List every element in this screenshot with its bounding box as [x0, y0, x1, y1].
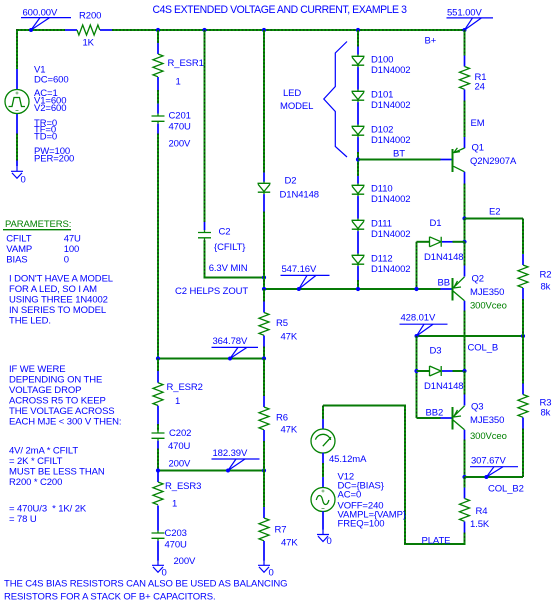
svg-text:CFILT: CFILT	[6, 234, 31, 245]
wire D112 to BB row	[357, 280, 359, 289]
svg-text:R200 * C200: R200 * C200	[9, 477, 62, 488]
wire D3 left vertical	[416, 336, 418, 418]
current probe 45.12mA	[311, 429, 367, 465]
wire LED chain top	[357, 30, 359, 47]
diode D110	[352, 183, 411, 205]
voltage source V12	[311, 488, 335, 512]
pin D110-D111	[357, 196, 359, 218]
node dot BB left	[262, 287, 266, 291]
pin R4 bottom	[464, 522, 466, 533]
wire R7 top	[263, 471, 265, 508]
wire R1 top	[464, 30, 466, 56]
svg-text:C201: C201	[169, 111, 191, 122]
svg-text:THE VOLTAGE ACROSS: THE VOLTAGE ACROSS	[9, 406, 115, 417]
svg-text:COL_B2: COL_B2	[488, 484, 524, 495]
svg-text:0: 0	[21, 175, 26, 186]
wire COL_B row	[417, 335, 524, 337]
svg-text:IF WE WERE: IF WE WERE	[9, 364, 66, 375]
diode D1	[424, 218, 463, 263]
pin C203 to ground	[157, 541, 159, 561]
wire R4 to PLATE	[464, 533, 466, 545]
wire E2 row	[465, 218, 524, 220]
node dot 182 right	[262, 468, 266, 472]
wire Q3 collector down	[464, 440, 466, 478]
svg-text:47K: 47K	[281, 538, 298, 549]
node dot BT	[356, 157, 360, 161]
svg-text:R4: R4	[476, 506, 488, 517]
pin V1 gnd stub	[16, 161, 18, 167]
pin Q2 emitter	[464, 266, 466, 277]
pin V1 bottom	[16, 113, 18, 133]
svg-text:BIAS: BIAS	[6, 255, 27, 266]
voltage viewpoint 600.00V	[21, 8, 71, 33]
svg-text:300Vceo: 300Vceo	[470, 301, 507, 312]
pin R_ESR2 bottom	[157, 406, 159, 424]
svg-text:307.67V: 307.67V	[471, 456, 506, 467]
svg-text:MJE350: MJE350	[470, 287, 504, 298]
resistor R_ESR3	[153, 481, 201, 510]
svg-text:D1N4148: D1N4148	[424, 381, 463, 392]
svg-text:EACH MJE < 300 V THEN:: EACH MJE < 300 V THEN:	[9, 417, 121, 428]
voltage viewpoint 182.39V	[212, 448, 260, 473]
svg-text:THE LED.: THE LED.	[9, 316, 51, 327]
svg-text:D1N4002: D1N4002	[371, 264, 410, 275]
svg-text:47U: 47U	[64, 234, 81, 245]
pin R6 bottom	[263, 430, 265, 441]
wire R5 to 364 row	[263, 347, 265, 359]
svg-text:100: 100	[64, 244, 80, 255]
svg-text:Q2: Q2	[472, 274, 484, 285]
svg-text:D3: D3	[430, 346, 442, 357]
voltage source V1	[5, 90, 29, 114]
pin D2 bottom	[263, 194, 265, 211]
svg-text:D1: D1	[430, 218, 442, 229]
svg-text:R2: R2	[540, 270, 552, 281]
resistor R1	[460, 67, 487, 93]
svg-text:THE C4S BIAS RESISTORS CAN ALS: THE C4S BIAS RESISTORS CAN ALSO BE USED …	[4, 579, 287, 590]
ground 0 (chain A)	[152, 560, 167, 579]
svg-text:VAMP: VAMP	[6, 244, 32, 255]
wire C2 bottom elbow horizontal	[204, 277, 265, 279]
svg-text:R6: R6	[276, 413, 288, 424]
svg-text:6.3V MIN: 6.3V MIN	[209, 263, 248, 274]
svg-text:Q2N2907A: Q2N2907A	[470, 156, 517, 167]
svg-text:Q3: Q3	[471, 402, 483, 413]
comment block CFILT math	[9, 446, 105, 526]
diode D112	[352, 253, 411, 275]
svg-text:USING THREE 1N4002: USING THREE 1N4002	[9, 295, 108, 306]
svg-text:E2: E2	[489, 207, 500, 218]
wire Q2 collector down	[464, 311, 466, 371]
ground 0 (R7)	[258, 560, 274, 579]
svg-text:C203: C203	[165, 528, 187, 539]
diode D102	[352, 124, 411, 146]
wire chain C2 drop	[204, 30, 206, 222]
pin V12 top	[322, 477, 324, 488]
wire R_ESR1 to C201	[157, 90, 159, 104]
svg-text:D2: D2	[285, 175, 297, 186]
pin R_ESR3 bottom	[157, 506, 159, 531]
wire R3 top	[522, 336, 524, 384]
wire top rail left of R200	[17, 29, 65, 31]
node dot E2	[462, 216, 466, 220]
pin D100 top	[357, 47, 359, 55]
pin Q2 collector	[464, 301, 466, 311]
wire loop top	[323, 405, 406, 407]
resistor R_ESR2	[153, 382, 203, 407]
resistor R3	[518, 395, 551, 419]
node dot BB D1	[414, 287, 418, 291]
pin Q1 collector	[464, 172, 466, 184]
resistor R7	[259, 518, 298, 549]
svg-text:600.00V: 600.00V	[23, 8, 58, 19]
diode D2	[258, 175, 319, 200]
wire C2 bottom elbow vertical	[204, 240, 206, 277]
wire COL_B2 row	[465, 476, 524, 478]
wire D1 junction to Q2 emitter	[464, 242, 466, 266]
wire chain A top	[157, 30, 159, 43]
svg-text:= 2K * CFILT: = 2K * CFILT	[9, 456, 63, 467]
resistor R200	[77, 11, 101, 49]
svg-text:= 78 U: = 78 U	[9, 514, 37, 525]
svg-text:8k: 8k	[541, 282, 551, 293]
pin current probe bottom	[322, 453, 324, 463]
svg-text:C2: C2	[219, 227, 231, 238]
pin R1 bottom	[464, 90, 466, 101]
pin C202 bottom	[157, 441, 159, 449]
svg-text:COL_B: COL_B	[468, 343, 499, 354]
svg-text:{CFILT}: {CFILT}	[214, 242, 245, 253]
svg-text:BB2: BB2	[426, 408, 444, 419]
svg-text:R_ESR2: R_ESR2	[167, 382, 203, 393]
svg-text:24: 24	[475, 82, 485, 93]
parameter BIAS	[6, 255, 69, 266]
wire C201 to 364 row	[157, 134, 159, 359]
wire chain B top	[263, 30, 265, 173]
svg-text:FOR A LED, SO I AM: FOR A LED, SO I AM	[9, 284, 97, 295]
voltage viewpoint 428.01V	[400, 313, 448, 339]
svg-text:1: 1	[172, 499, 177, 510]
pin R4 top	[464, 488, 466, 499]
pin Q3 base	[441, 417, 452, 419]
node dot D3 anode	[414, 369, 418, 373]
wire BT row	[358, 159, 441, 161]
comment block IF WE WERE	[9, 364, 121, 428]
diode D3	[424, 346, 463, 393]
wire 182 row	[158, 470, 264, 472]
pin R3 bottom	[522, 418, 524, 429]
voltage viewpoint 551.00V	[447, 8, 494, 33]
svg-text:200V: 200V	[169, 459, 192, 470]
node dot top rail LED	[356, 28, 360, 32]
svg-text:D102: D102	[371, 124, 393, 135]
svg-text:364.78V: 364.78V	[213, 336, 248, 347]
wire R1 to Q1 emitter	[464, 101, 466, 138]
svg-text:C202: C202	[169, 428, 191, 439]
svg-text:200V: 200V	[169, 139, 192, 150]
pin Q1 base	[441, 159, 452, 161]
svg-text:AC=0: AC=0	[338, 490, 362, 501]
wire C202 to 182 row	[157, 449, 159, 471]
diode D101	[352, 89, 411, 111]
wire BT junction vertical	[357, 152, 359, 176]
svg-text:I DON'T HAVE A MODEL: I DON'T HAVE A MODEL	[9, 274, 113, 285]
svg-text:D111: D111	[371, 218, 392, 229]
pin R5 bottom	[263, 336, 265, 347]
pin R7 top	[263, 507, 265, 518]
wire D1 cathode stub	[453, 241, 465, 243]
svg-text:D101: D101	[371, 89, 393, 100]
wire BB2 row	[417, 417, 441, 419]
capacitor C203	[152, 528, 197, 567]
wire left drop to V1	[16, 29, 18, 69]
wire E2 to D1 junction	[464, 219, 466, 242]
svg-text:0: 0	[162, 568, 167, 579]
pin R7 to ground	[263, 541, 265, 561]
pin C201 top	[157, 104, 159, 114]
svg-text:R_ESR3: R_ESR3	[165, 481, 201, 492]
wire R6 to 182 row	[263, 441, 265, 471]
resistor R5	[259, 313, 298, 343]
pin V1 top	[16, 69, 18, 90]
wire Q3 emitter up	[464, 371, 466, 395]
svg-text:VOLTAGE DROP: VOLTAGE DROP	[9, 385, 81, 396]
svg-text:LED: LED	[283, 88, 301, 99]
pin Q1 emitter	[464, 137, 466, 148]
node dot 182 left	[156, 468, 160, 472]
diode D111	[352, 218, 411, 240]
pin R200 left	[65, 29, 77, 31]
wire V12 branch top	[322, 406, 324, 420]
svg-text:200V: 200V	[174, 556, 197, 567]
PARAMETERS heading	[3, 219, 71, 230]
voltage viewpoint 547.16V	[281, 264, 330, 291]
svg-text:TD=0: TD=0	[34, 132, 57, 143]
wire D3 anode stub	[417, 370, 430, 372]
svg-text:470U: 470U	[165, 540, 188, 551]
ground 0 (V1)	[11, 166, 26, 186]
svg-text:8k: 8k	[541, 408, 551, 419]
pin Q2 base	[441, 288, 452, 290]
node dot COL_B right	[521, 334, 525, 338]
transistor Q3	[453, 402, 507, 443]
svg-text:1: 1	[176, 77, 181, 88]
svg-text:Q1: Q1	[472, 143, 484, 154]
wire D3 cathode stub	[453, 370, 465, 372]
svg-text:R200: R200	[79, 11, 101, 22]
voltage viewpoint 364.78V	[212, 336, 259, 361]
svg-text:D110: D110	[371, 183, 393, 194]
svg-text:DC=600: DC=600	[34, 75, 69, 86]
node dot C2 join	[262, 275, 266, 279]
pin D2 top	[263, 173, 265, 182]
wire loop vertical	[404, 406, 406, 546]
wire 364 row	[158, 358, 264, 360]
resistor R4	[460, 499, 490, 531]
capacitor C2	[198, 227, 245, 254]
pin R5 top	[263, 302, 265, 313]
pin C201 bottom	[157, 124, 159, 134]
svg-text:FREQ=100: FREQ=100	[338, 519, 385, 530]
diode D100	[352, 54, 411, 76]
svg-text:428.01V: 428.01V	[401, 313, 436, 324]
svg-text:47K: 47K	[281, 425, 298, 436]
svg-text:BT: BT	[393, 149, 405, 160]
svg-text:0: 0	[327, 536, 332, 547]
pin R_ESR2 top	[157, 359, 159, 383]
pin R3 top	[522, 384, 524, 395]
pin D110 top	[357, 176, 359, 184]
svg-text:1: 1	[175, 396, 180, 407]
pin R_ESR1 bottom	[157, 77, 159, 90]
wire BB row	[264, 288, 441, 290]
node dot D3 right	[462, 369, 466, 373]
pin R200 right	[100, 29, 112, 31]
wire Q1 collector to E2	[464, 184, 466, 219]
wire PLATE row	[405, 543, 466, 545]
wire D1 anode stub	[417, 241, 430, 243]
pin R_ESR1 top	[157, 43, 159, 54]
pin D112 bottom	[357, 266, 359, 280]
svg-text:IN SERIES TO MODEL: IN SERIES TO MODEL	[9, 305, 106, 316]
svg-text:PARAMETERS:: PARAMETERS:	[5, 219, 71, 230]
svg-text:1.5K: 1.5K	[470, 519, 490, 530]
wire R5 top	[263, 289, 265, 302]
svg-text:D1N4148: D1N4148	[280, 190, 319, 201]
node dot top rail A	[156, 28, 160, 32]
svg-text:D1N4002: D1N4002	[371, 229, 410, 240]
svg-text:470U: 470U	[169, 122, 192, 133]
capacitor C201	[152, 111, 192, 150]
svg-text:300Vceo: 300Vceo	[470, 431, 507, 442]
wire probe to V12	[322, 463, 324, 477]
LED MODEL brace	[280, 42, 347, 158]
pin R2 top	[522, 254, 524, 265]
svg-text:EM: EM	[471, 118, 485, 129]
pin D101-D102	[357, 102, 359, 124]
resistor R6	[259, 407, 298, 436]
wire R2 top	[522, 219, 524, 255]
pin R6 top	[263, 396, 265, 407]
parameter VAMP	[6, 244, 79, 255]
node dot BB LED	[356, 287, 360, 291]
node dot 364 right	[262, 356, 266, 360]
svg-text:C2 HELPS ZOUT: C2 HELPS ZOUT	[175, 286, 248, 297]
ground 0 (V12)	[317, 529, 332, 547]
svg-text:182.39V: 182.39V	[213, 448, 248, 459]
svg-text:0: 0	[269, 568, 274, 579]
wire V1 to ground	[16, 134, 18, 161]
svg-text:D112: D112	[371, 253, 393, 264]
node dot top rail B	[262, 28, 266, 32]
svg-text:47K: 47K	[281, 332, 298, 343]
svg-text:4V/ 2mA * CFILT: 4V/ 2mA * CFILT	[9, 446, 78, 457]
wire D2 to BB row	[263, 212, 265, 290]
pin current probe top	[322, 419, 324, 429]
wire R3 to COL_B2	[522, 429, 524, 478]
svg-text:D1N4148: D1N4148	[424, 252, 463, 263]
wire R_ESR2 to C202	[157, 424, 159, 431]
svg-text:45.12mA: 45.12mA	[329, 454, 367, 465]
resistor R_ESR1	[153, 54, 204, 88]
pin D1 cathode	[442, 241, 453, 243]
pin Q3 emitter	[464, 395, 466, 406]
pin D100-D101	[357, 67, 359, 89]
transistor Q1	[453, 143, 517, 173]
voltage viewpoint 307.67V	[470, 456, 518, 480]
svg-text:547.16V: 547.16V	[282, 264, 317, 275]
svg-text:R7: R7	[275, 525, 287, 536]
svg-text:1K: 1K	[83, 38, 95, 49]
svg-text:D1N4002: D1N4002	[371, 65, 410, 76]
pin D102 bottom	[357, 137, 359, 152]
svg-text:0: 0	[64, 255, 69, 266]
svg-text:BB: BB	[438, 278, 450, 289]
node dot 364 left	[156, 356, 160, 360]
pin C2 top	[204, 222, 206, 230]
comment block bottom	[4, 579, 287, 603]
svg-text:ACROSS R5 TO KEEP: ACROSS R5 TO KEEP	[9, 396, 106, 407]
pin Q3 collector	[464, 430, 466, 440]
svg-text:D1N4002: D1N4002	[371, 135, 410, 146]
capacitor C202	[152, 428, 192, 470]
svg-text:V2=600: V2=600	[34, 103, 66, 114]
svg-text:MODEL: MODEL	[280, 101, 313, 112]
node dot D1 cathode	[462, 240, 466, 244]
wire top B+ rail	[112, 29, 465, 31]
svg-text:D100: D100	[371, 54, 393, 65]
svg-text:470U: 470U	[168, 441, 191, 452]
svg-text:551.00V: 551.00V	[447, 8, 482, 19]
transistor Q2	[453, 274, 507, 312]
resistor R2	[518, 265, 551, 293]
pin R1 top	[464, 56, 466, 67]
parameter CFILT	[6, 234, 81, 245]
svg-text:PER=200: PER=200	[34, 154, 74, 165]
pin R2 bottom	[522, 288, 524, 299]
svg-text:MUST BE LESS THAN: MUST BE LESS THAN	[9, 467, 105, 478]
pin D111-D112	[357, 231, 359, 253]
pin D3 cathode	[442, 370, 453, 372]
svg-text:D1N4002: D1N4002	[371, 100, 410, 111]
svg-text:R_ESR1: R_ESR1	[168, 58, 204, 69]
node dot COL_B2	[462, 475, 466, 479]
wire R6 top	[263, 359, 265, 397]
svg-text:PLATE: PLATE	[422, 536, 451, 547]
svg-text:= 470U/3 * 1K/ 2K: = 470U/3 * 1K/ 2K	[9, 504, 87, 515]
svg-text:DEPENDING ON THE: DEPENDING ON THE	[9, 375, 102, 386]
svg-text:C4S EXTENDED VOLTAGE AND CURRE: C4S EXTENDED VOLTAGE AND CURRENT, EXAMPL…	[153, 4, 407, 16]
svg-text:MJE350: MJE350	[470, 415, 504, 426]
wire R4 top	[464, 477, 466, 488]
pin R_ESR3 top	[157, 472, 159, 483]
svg-text:B+: B+	[425, 36, 437, 47]
wire R2 to COL_B	[522, 299, 524, 336]
pin V12 bottom	[322, 511, 324, 529]
svg-text:D1N4002: D1N4002	[371, 194, 410, 205]
wire D1 left vertical	[416, 242, 418, 289]
svg-text:RESISTORS FOR A STACK OF B+ CA: RESISTORS FOR A STACK OF B+ CAPACITORS.	[4, 592, 216, 603]
node dot top rail C2	[202, 28, 206, 32]
comment block LED model	[9, 274, 113, 327]
svg-text:R5: R5	[276, 318, 288, 329]
